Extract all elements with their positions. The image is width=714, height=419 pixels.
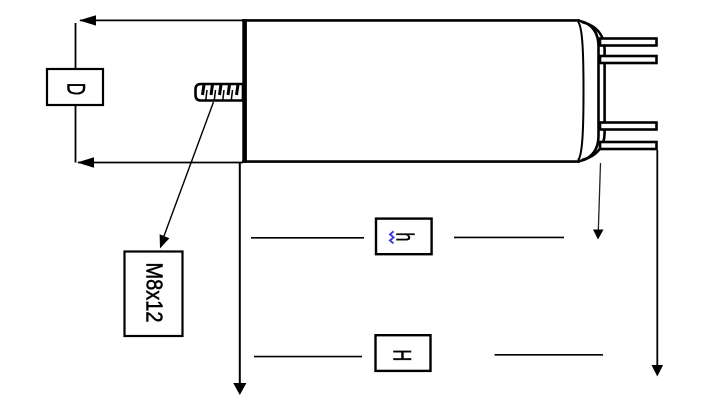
svg-text:H: H	[388, 350, 415, 362]
capacitor end cap crimp band outer arc	[580, 21, 599, 161]
svg-text:h: h	[390, 232, 417, 241]
blue spellcheck squiggle beside h	[390, 231, 394, 243]
leader arrow from stud to M8x12 label	[160, 102, 214, 249]
terminal pin 2	[600, 56, 657, 63]
svg-text:M8x12: M8x12	[141, 263, 168, 323]
dimension D extension line (lower)	[75, 105, 77, 163]
terminal pin 1	[600, 39, 657, 46]
capacitor body bottom edge	[242, 160, 580, 163]
label box D	[47, 69, 103, 105]
terminal pin 4	[600, 142, 657, 149]
label box M8x12	[125, 252, 183, 337]
capacitor end cap crimp band rim	[582, 22, 605, 160]
dimension D bottom arrow	[77, 157, 243, 167]
capacitor body top edge	[242, 19, 580, 22]
leader line H right	[495, 354, 604, 356]
label box H	[376, 335, 431, 371]
dimension D extension line (upper)	[75, 23, 77, 69]
leader line h left	[251, 237, 364, 239]
leader line h right	[454, 236, 564, 238]
label box h	[376, 219, 432, 255]
terminal pin 3	[600, 123, 657, 130]
dimension H arrow (from pins down)	[652, 150, 664, 377]
svg-text:D: D	[62, 83, 90, 95]
vertical dimension line from capacitor bottom-left (H reference)	[233, 163, 246, 395]
capacitor body left edge	[242, 19, 247, 163]
dimension h arrow (from end cap down)	[593, 163, 604, 240]
leader line H left	[254, 356, 362, 358]
capacitor end cap inner arc	[578, 22, 584, 161]
dimension D top arrow	[79, 15, 243, 25]
mounting stud (threaded)	[196, 84, 244, 101]
